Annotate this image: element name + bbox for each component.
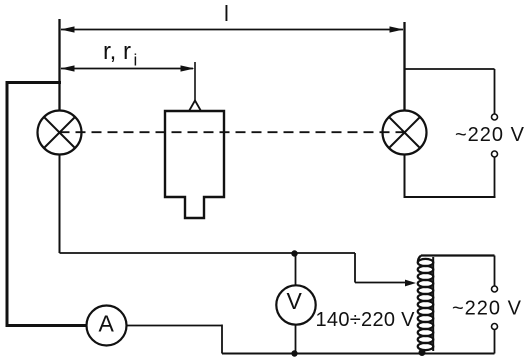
svg-text:V: V — [287, 288, 303, 314]
svg-text:~220 V: ~220 V — [455, 124, 525, 146]
svg-text:i: i — [134, 51, 138, 70]
svg-text:A: A — [99, 311, 115, 337]
svg-text:140÷220 V: 140÷220 V — [316, 309, 416, 331]
svg-text:~220 V: ~220 V — [452, 298, 522, 320]
svg-text:l: l — [224, 1, 229, 26]
svg-text:r, r: r, r — [103, 38, 131, 65]
